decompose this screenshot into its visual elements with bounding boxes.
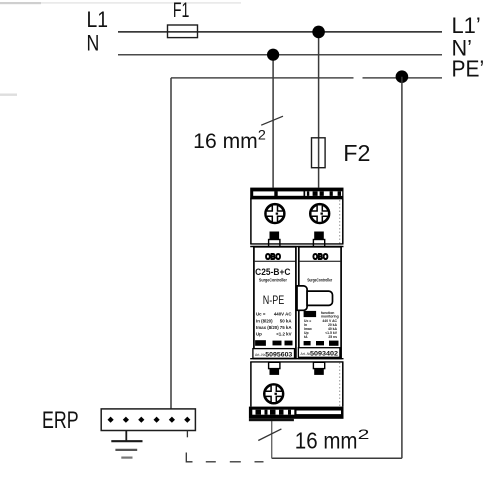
module right face (299, 247, 341, 359)
svg-text:<1.2 kV: <1.2 kV (276, 332, 291, 337)
svg-text:SurgeController: SurgeController (259, 277, 287, 282)
svg-text:Up: Up (256, 332, 262, 337)
wire equipotential bond dashed (186, 453, 263, 462)
wire L1 bus (118, 31, 442, 33)
svg-text:25 ns: 25 ns (328, 335, 337, 339)
svg-text:2: 2 (358, 426, 370, 442)
value labels right module (304, 311, 339, 339)
wire N bus (118, 54, 442, 56)
logo OBO left (255, 251, 295, 261)
module left face (254, 247, 296, 359)
svg-text:Uc =: Uc = (256, 312, 266, 317)
wire earth horizontal run (272, 457, 402, 459)
terminal screw bottom (264, 384, 283, 403)
value labels left module (256, 312, 292, 337)
wire ERP bar stub (186, 431, 188, 438)
clamp bottom right (313, 362, 324, 375)
wire N down to arrester (272, 55, 274, 189)
wire ERP bar to ground (125, 431, 127, 442)
svg-text:Art.-Nr.: Art.-Nr. (255, 353, 266, 357)
clamp top right (313, 232, 324, 247)
lower housing section (251, 362, 343, 407)
svg-text:16 mm: 16 mm (193, 130, 258, 153)
node junction L1 (312, 26, 325, 39)
svg-text:5093402: 5093402 (310, 350, 338, 357)
plug-in protection module (297, 286, 333, 310)
svg-text:SurgeController: SurgeController (307, 277, 332, 282)
upper housing section (250, 199, 343, 244)
top terminal bar (250, 188, 343, 199)
terminal screw top left (266, 204, 285, 223)
terminal bar ERP (101, 409, 195, 431)
bottom terminal bar (249, 407, 344, 422)
certification marks right (304, 341, 339, 346)
wire L1 down to F2 and arrester (318, 32, 320, 189)
node junction PE (396, 70, 409, 83)
svg-text:5095603: 5095603 (265, 351, 292, 358)
svg-text:tA: tA (304, 335, 308, 339)
fuse F2 (312, 138, 326, 168)
svg-text:Imax (8/20): Imax (8/20) (256, 325, 279, 330)
svg-text:F1: F1 (173, 0, 190, 22)
conductor size mark 16mm2 bottom (258, 426, 369, 453)
ground (111, 441, 142, 457)
wire PE junction down to earth run (401, 77, 403, 459)
certification marks left (256, 341, 293, 346)
svg-text:75 kA: 75 kA (280, 325, 293, 330)
part number 5093402 (298, 348, 340, 358)
terminal screw top right (310, 204, 329, 223)
clamp top left (269, 232, 280, 247)
surge arrester U1 OBO V25-B+C NPE (249, 188, 344, 422)
fuse F1 (168, 25, 198, 38)
part number 5095603 (253, 349, 295, 359)
svg-text:50 kA: 50 kA (280, 318, 293, 323)
svg-text:L1: L1 (87, 7, 109, 32)
svg-text:N-PE: N-PE (263, 293, 285, 307)
wire PE bus (171, 77, 442, 79)
scan artifact top gray line (0, 2, 241, 96)
module bottom lines (250, 359, 343, 362)
svg-text:OBO: OBO (313, 251, 329, 261)
wire PE down to ERP bar (170, 78, 172, 410)
svg-text:N: N (87, 31, 100, 56)
svg-text:OBO: OBO (265, 251, 281, 261)
logo OBO right (300, 251, 341, 261)
wire arrester earth down (271, 419, 273, 459)
svg-text:ERP: ERP (42, 407, 79, 434)
module divider lines (250, 244, 343, 247)
node junction N (267, 49, 279, 61)
svg-text:F2: F2 (343, 140, 370, 166)
svg-text:440V AC: 440V AC (274, 312, 292, 317)
svg-text:PE’: PE’ (452, 55, 485, 81)
svg-text:In (8/20): In (8/20) (256, 318, 273, 323)
svg-text:monitoring: monitoring (321, 314, 339, 318)
clamp bottom left (269, 362, 280, 375)
svg-text:2: 2 (258, 128, 266, 143)
conductor size mark 16mm2 top (193, 116, 283, 153)
svg-text:16 mm: 16 mm (295, 428, 358, 454)
